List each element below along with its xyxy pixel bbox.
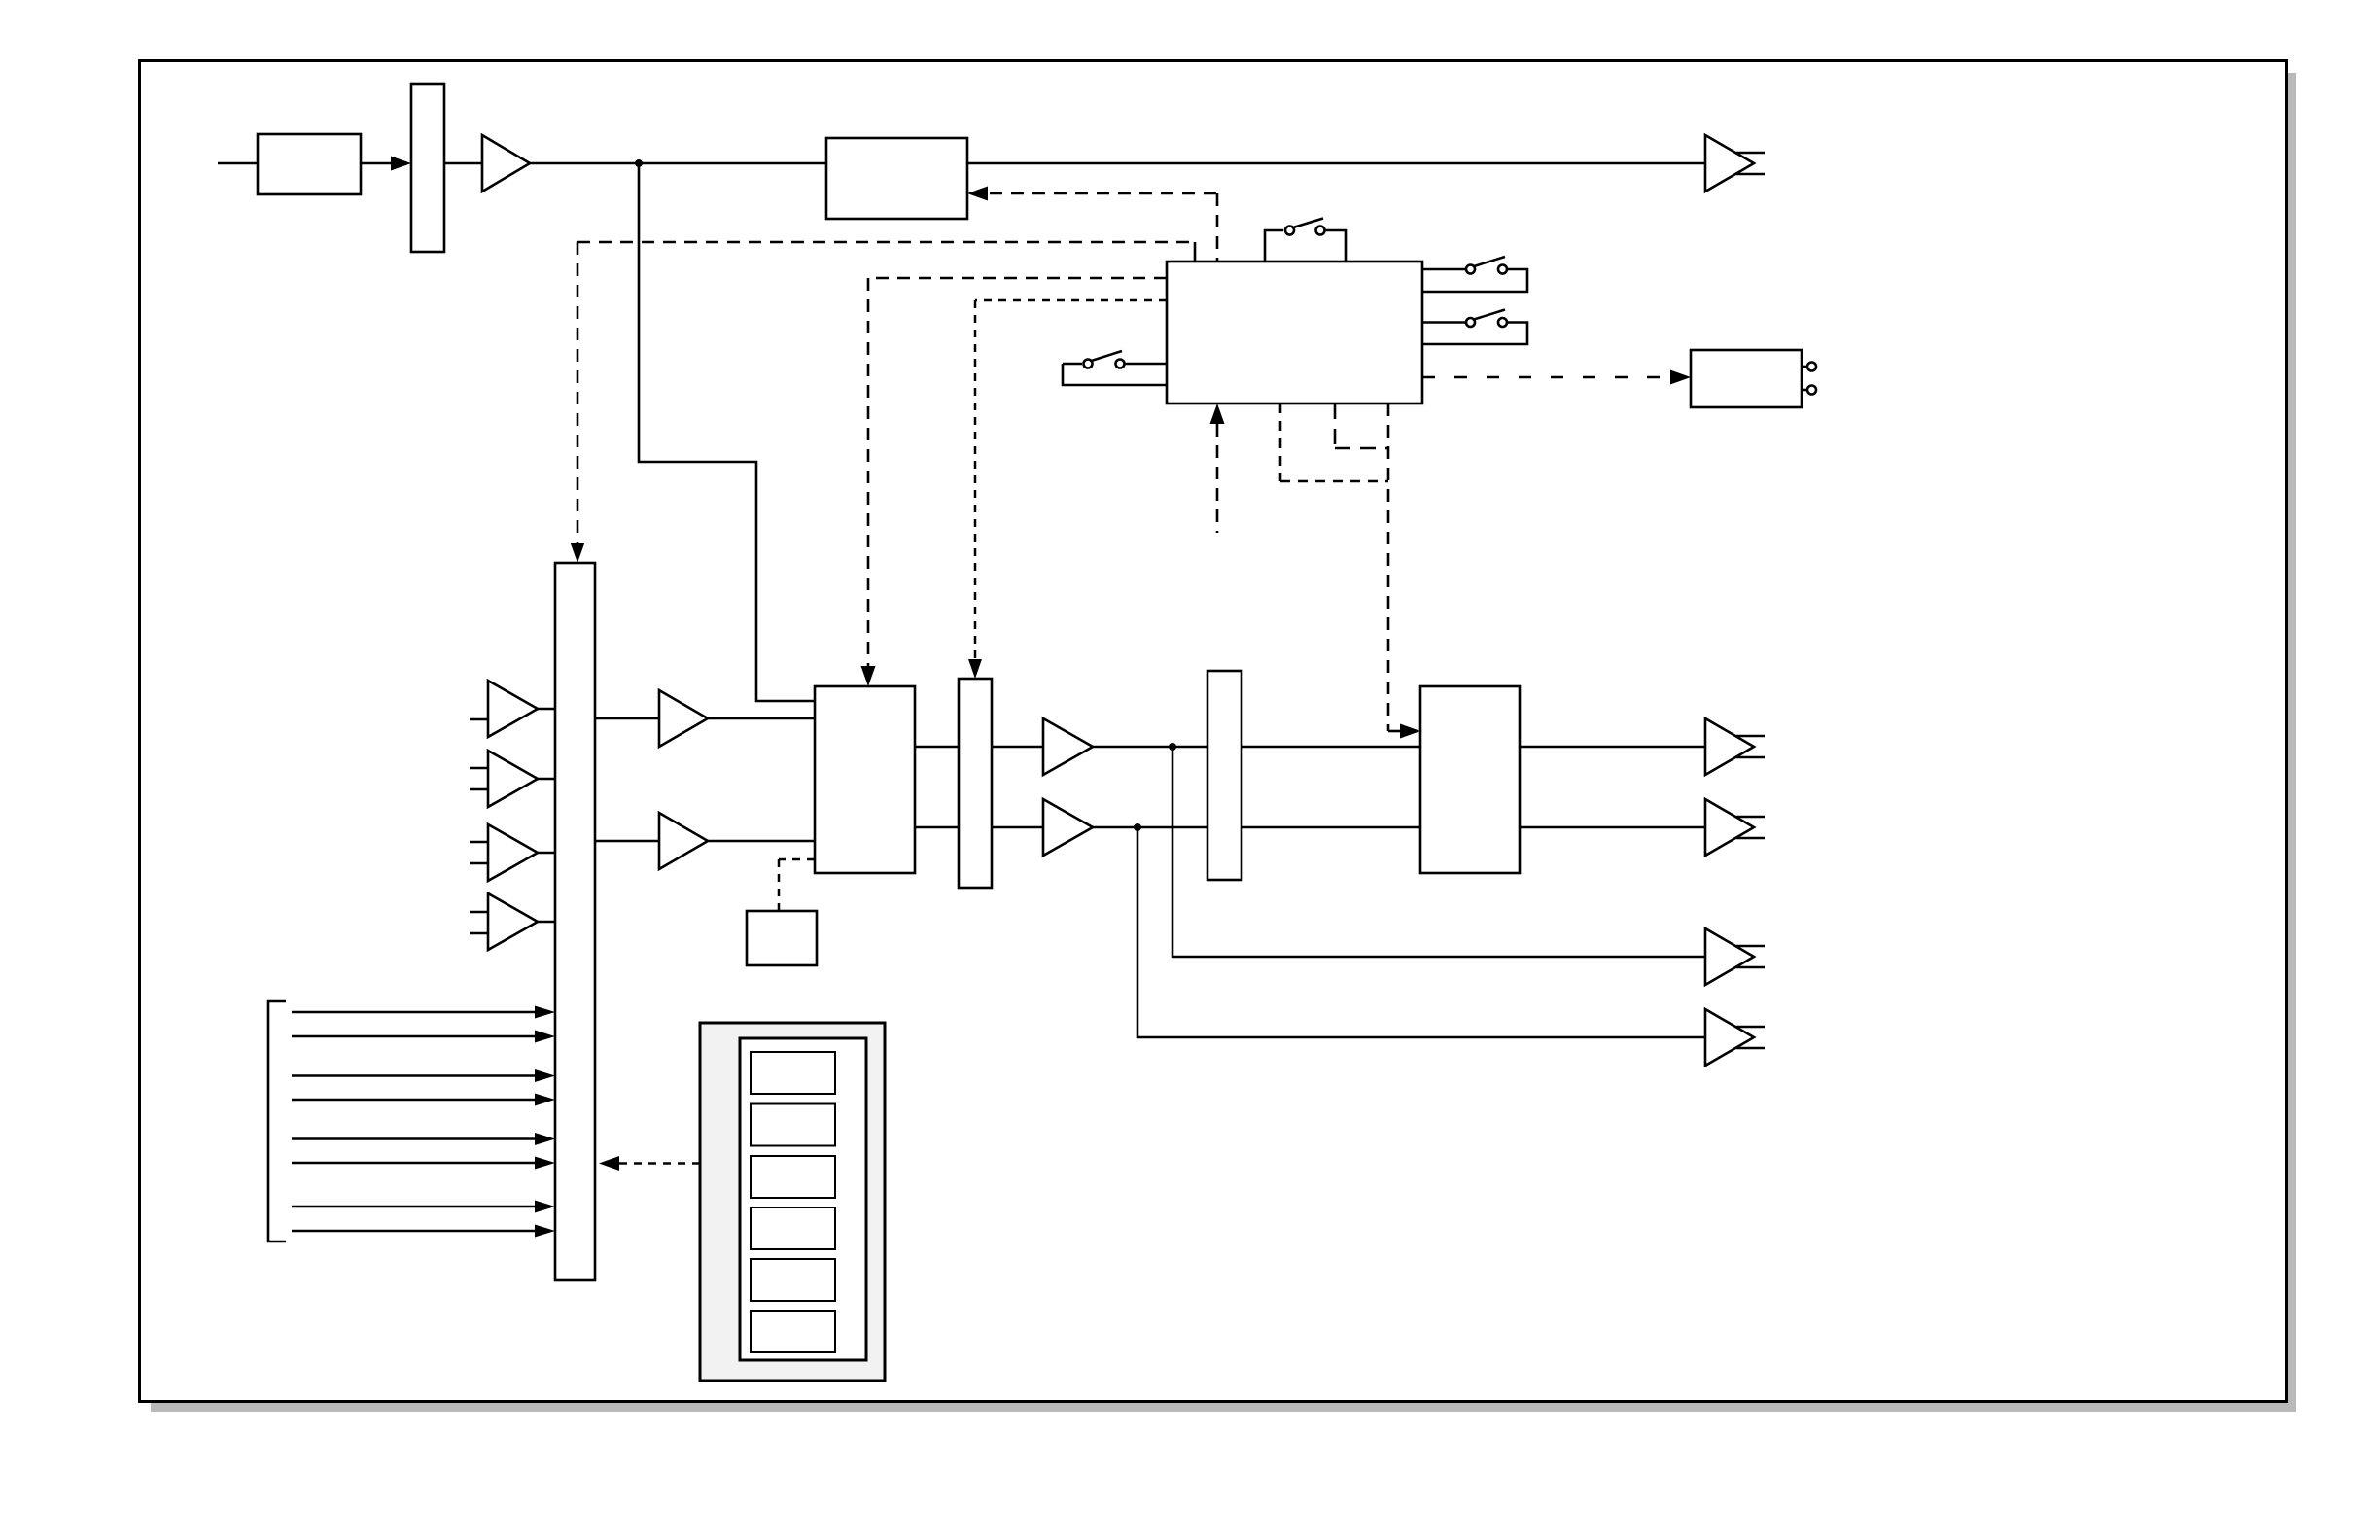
display cell 3 bbox=[751, 1156, 835, 1198]
input block box1 bbox=[258, 134, 361, 194]
wire box2 to output buffer U2 bbox=[967, 162, 1705, 165]
wire U3 to mixer box3 bbox=[708, 717, 815, 720]
buffer amp U5 bbox=[1043, 718, 1093, 775]
node junction J3 bbox=[1134, 823, 1141, 831]
buffer amp U6 bbox=[1043, 799, 1093, 856]
bus input arrow 3 bbox=[292, 1069, 555, 1082]
switch S3 loop right of block B bbox=[1422, 310, 1527, 345]
wire U6 to bar3 bbox=[1093, 826, 1207, 829]
wire J1 down to mixer bbox=[639, 163, 815, 701]
display cell 4 bbox=[751, 1207, 835, 1249]
input amp A4 bbox=[470, 893, 555, 950]
dashed control elbow b2 below block B bbox=[1335, 403, 1388, 448]
dashed control display to bus bbox=[599, 1156, 700, 1171]
bus input arrow 1 bbox=[292, 1006, 555, 1019]
dashed control B to box6 bbox=[1422, 370, 1691, 385]
memory block box5 bbox=[747, 911, 817, 965]
dashed link box3 to box5 bbox=[779, 859, 815, 911]
wire J2 down to U9 bbox=[1172, 747, 1705, 957]
display cell 2 bbox=[751, 1104, 835, 1146]
switch S4 tab left of block B bbox=[1063, 351, 1167, 385]
wire box4 to U8 bbox=[1520, 826, 1705, 829]
output block box6 bbox=[1691, 350, 1816, 407]
wire bus to buffer U4 bbox=[595, 840, 659, 843]
buffer amp U1 bbox=[482, 135, 530, 192]
dashed control bus corner node bbox=[571, 242, 1196, 563]
fader bar3 bbox=[1207, 671, 1242, 880]
display cell 1 bbox=[751, 1052, 835, 1094]
node junction J1 bbox=[635, 159, 643, 167]
switch S1 on top of block B bbox=[1265, 219, 1346, 262]
wire fader1 to buffer U1 bbox=[444, 162, 482, 165]
buffer amp U4 bbox=[659, 813, 708, 869]
wire U1 to box2 bbox=[530, 162, 826, 165]
wire U4 to mixer box3 bbox=[708, 840, 815, 843]
input amp A3 bbox=[470, 824, 555, 881]
wire input bbox=[218, 162, 258, 165]
display module inner bbox=[740, 1038, 866, 1360]
dashed control into box4 bbox=[1388, 403, 1420, 739]
dashed control line into fader bar2 top bbox=[968, 300, 1167, 679]
wire bar3 to box4 R bbox=[1242, 826, 1420, 829]
bus input arrow 7 bbox=[292, 1201, 555, 1213]
input bracket bbox=[268, 1001, 286, 1242]
dashed control elbow b1 below block B bbox=[1280, 403, 1388, 481]
wire box1 to fader1 with arrow bbox=[361, 157, 411, 171]
dashed control line into mixer top bbox=[861, 278, 1168, 686]
summing bus bar bbox=[555, 563, 595, 1280]
control block B (switch box) bbox=[1167, 262, 1422, 403]
wire J3 down to U10 bbox=[1137, 827, 1705, 1037]
drop shadow of frame bbox=[151, 73, 2296, 1412]
bus input arrow 2 bbox=[292, 1031, 555, 1043]
mixer block box3 bbox=[815, 686, 915, 873]
wire box3 out R bbox=[915, 826, 959, 829]
dashed control into box2 bbox=[967, 187, 1217, 262]
display cell 5 bbox=[751, 1259, 835, 1301]
wire bar2 to buffer U5 bbox=[992, 746, 1043, 749]
output buffer U8 bbox=[1705, 799, 1765, 856]
display cell 6 bbox=[751, 1311, 835, 1352]
display module outer bbox=[700, 1023, 885, 1381]
wire box4 to U7 bbox=[1520, 746, 1705, 749]
input amp A2 bbox=[470, 751, 555, 807]
output buffer U10 bbox=[1705, 1009, 1765, 1066]
input amp A1 bbox=[470, 681, 555, 737]
bus input arrow 5 bbox=[292, 1133, 555, 1145]
switch S2 loop right of block B bbox=[1422, 257, 1527, 292]
bus input arrow 6 bbox=[292, 1157, 555, 1170]
wire bar2 to buffer U6 bbox=[992, 826, 1043, 829]
wire box3 out L bbox=[915, 746, 959, 749]
bus input arrow 8 bbox=[292, 1225, 555, 1238]
wire U5 to bar3 bbox=[1093, 746, 1207, 749]
output buffer U7 bbox=[1705, 718, 1765, 775]
bus input arrow 4 bbox=[292, 1094, 555, 1106]
processor block box2 bbox=[826, 138, 967, 219]
fader bar2 bbox=[959, 679, 992, 888]
fader bar1 bbox=[411, 84, 444, 252]
node junction J2 bbox=[1169, 743, 1176, 751]
buffer amp U3 bbox=[659, 690, 708, 747]
wire bus to buffer U3 bbox=[595, 717, 659, 720]
output buffer U2 bbox=[1705, 135, 1765, 192]
output buffer U9 bbox=[1705, 928, 1765, 985]
dashed control arrow up into block B bottom bbox=[1210, 403, 1225, 533]
output stage block box4 bbox=[1420, 686, 1520, 873]
frame border bbox=[140, 61, 2287, 1402]
wire bar3 to box4 L bbox=[1242, 746, 1420, 749]
